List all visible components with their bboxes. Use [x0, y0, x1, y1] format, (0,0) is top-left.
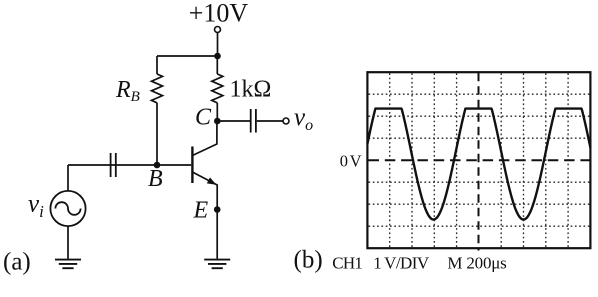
transistor collector lead: [192, 121, 217, 156]
svg-text:E: E: [193, 198, 209, 224]
capacitor input plate right: [115, 153, 117, 177]
capacitor output plate right: [255, 109, 257, 133]
wire node B to base: [111, 164, 191, 166]
svg-text:1 V/DIV: 1 V/DIV: [373, 254, 430, 273]
svg-text:+10V: +10V: [189, 0, 249, 28]
junction node at supply rail: [214, 53, 221, 60]
svg-text:CH1: CH1: [332, 254, 362, 273]
node B dot: [154, 162, 161, 169]
ground symbol under source: [55, 260, 81, 269]
scope border: [367, 72, 590, 248]
node E dot: [214, 206, 221, 213]
wire source to ground: [67, 226, 69, 259]
wire corner down to source: [67, 165, 69, 191]
wire emitter to ground: [216, 210, 218, 259]
wire capacitor to output terminal: [257, 120, 283, 122]
scope grid dotted: [369, 73, 591, 248]
center vertical dashed line: [478, 73, 480, 251]
wire RB bottom to node B: [156, 103, 158, 165]
svg-text:(b): (b): [294, 247, 323, 274]
wire down to RB top: [156, 56, 158, 74]
resistor RB: [152, 74, 163, 103]
wire input corner to capacitor: [68, 164, 110, 166]
svg-text:M 200μs: M 200μs: [447, 254, 506, 273]
wire rail down to 1k resistor: [216, 56, 218, 74]
wire supply terminal to junction: [217, 33, 219, 57]
svg-text:B: B: [148, 166, 163, 192]
output terminal (open circle): [283, 118, 289, 124]
transistor emitter lead: [192, 172, 217, 210]
svg-text:(a): (a): [3, 249, 31, 276]
svg-text:C: C: [195, 105, 212, 131]
transistor Q1 base bar: [191, 147, 193, 184]
node C dot: [214, 118, 221, 125]
resistor 1k: [212, 74, 223, 103]
source sine symbol: [55, 202, 80, 215]
source vi circle: [50, 191, 85, 226]
capacitor output plate left: [250, 109, 252, 133]
wire 1k bottom to node C: [216, 103, 218, 121]
ground symbol under emitter: [204, 260, 230, 269]
svg-text:1kΩ: 1kΩ: [230, 77, 272, 103]
svg-text:V: V: [350, 152, 362, 171]
waveform trace: [367, 109, 590, 220]
supply terminal (open circle): [215, 27, 221, 33]
svg-text:0: 0: [340, 152, 348, 171]
zero volt dashed line: [369, 159, 591, 161]
wire node C to output capacitor: [217, 120, 250, 122]
wire rail horizontal to RB branch: [157, 55, 218, 57]
emitter arrowhead: [207, 177, 217, 184]
oscilloscope screen: [294, 72, 591, 273]
capacitor input plate left: [110, 153, 112, 177]
